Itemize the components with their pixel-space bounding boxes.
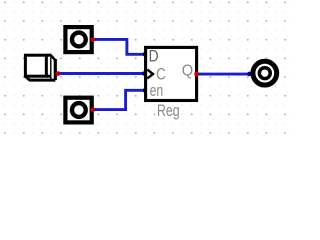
- input pin I2 (square with circle): [65, 98, 91, 123]
- output pin O1 (double circle): [253, 61, 277, 85]
- connection dot at I1 output: [91, 37, 96, 42]
- svg-text:Reg: Reg: [157, 102, 180, 120]
- svg-text:D: D: [149, 48, 159, 66]
- wire W2 from input pin I2 to register en input: [93, 90, 146, 109]
- wire W4 from register Q output to output pin O1: [198, 73, 253, 76]
- clock triangle at C input: [147, 70, 153, 79]
- svg-text:C: C: [156, 66, 166, 84]
- register U1 (Reg): [146, 47, 197, 100]
- grid dots: [0, 0, 294, 138]
- wire W4 endpoint dot at output pin: [247, 72, 252, 77]
- connection dot at U1 Q output: [194, 72, 199, 77]
- wire W2 endpoint dot at en: [143, 88, 148, 93]
- wire W3 from button B1 to register C input: [57, 72, 145, 75]
- wire W1 endpoint dot at D: [143, 52, 148, 57]
- button B1 (3D box): [25, 55, 55, 80]
- svg-text:Q: Q: [182, 62, 193, 79]
- connection dot at B1 output: [56, 71, 61, 76]
- wire W1 from input pin I1 to register D input: [93, 39, 146, 54]
- connection dot at I2 output: [91, 107, 96, 112]
- svg-text:en: en: [150, 82, 164, 100]
- wire W3 endpoint dot at C: [142, 71, 147, 76]
- input pin I1 (square with circle): [65, 27, 91, 52]
